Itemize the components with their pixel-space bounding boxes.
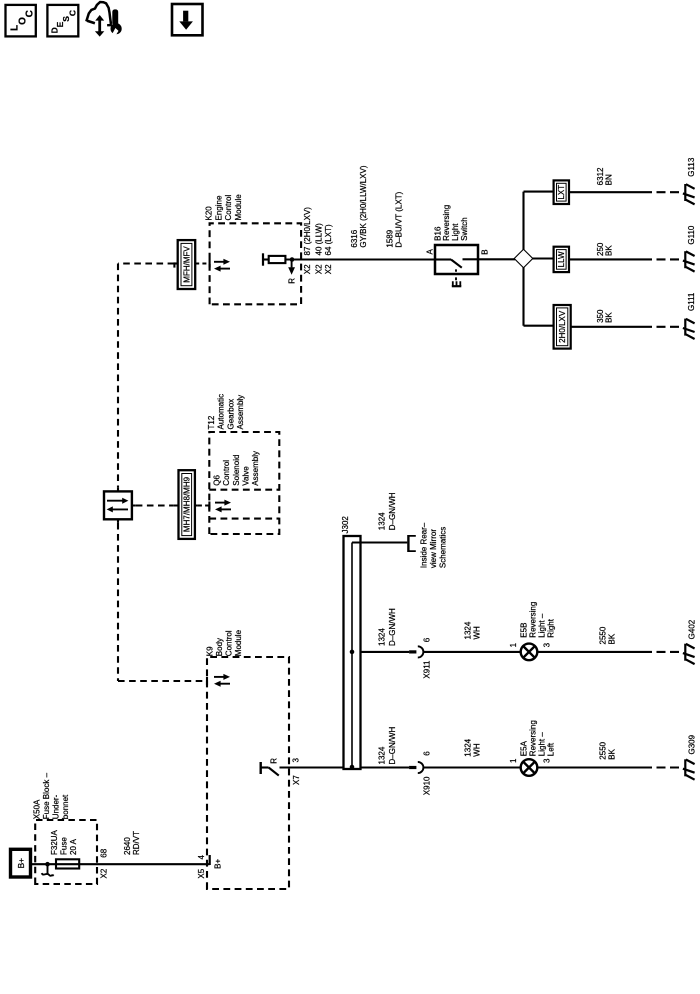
svg-text:87 (2H0/LXV): 87 (2H0/LXV) — [303, 207, 312, 256]
svg-text:D–GN/WH: D–GN/WH — [388, 727, 397, 765]
serial data arrows in K20 — [214, 259, 230, 272]
pin bracket at K9 B+ entry — [209, 855, 211, 865]
option box LXT — [554, 180, 569, 204]
wire E5A to ground — [537, 766, 652, 768]
svg-text:Schematics: Schematics — [439, 527, 448, 568]
svg-text:4: 4 — [197, 855, 206, 860]
mechanical comb symbol — [452, 285, 462, 287]
option box LLW — [554, 247, 569, 272]
ground G402 — [683, 644, 695, 664]
svg-text:X2: X2 — [303, 264, 312, 274]
label K20 Engine Control Module — [205, 194, 243, 221]
off-page bracket — [407, 535, 409, 552]
svg-text:Gearbox: Gearbox — [226, 399, 235, 430]
svg-text:Fuse: Fuse — [59, 837, 68, 855]
svg-text:X910: X910 — [423, 776, 432, 795]
svg-text:bonnet: bonnet — [61, 794, 70, 819]
svg-text:BK: BK — [607, 748, 616, 759]
wire K9 output to J302 — [280, 766, 344, 768]
ground G111 — [683, 319, 695, 339]
gearbox T12 dashed box — [209, 432, 279, 534]
wire LXT to ground — [569, 191, 652, 193]
svg-text:Engine: Engine — [214, 195, 223, 220]
mechanical link dashes — [455, 269, 457, 280]
svg-text:G110: G110 — [687, 225, 696, 245]
tick at MFH/MFV stub — [173, 262, 175, 267]
option box 2H0/LXV — [554, 305, 571, 349]
svg-text:X2: X2 — [324, 264, 333, 274]
svg-text:B: B — [481, 249, 490, 254]
output driver R in K9 — [260, 762, 262, 774]
label 1589 D-BU/VT — [386, 191, 404, 247]
svg-text:Q6: Q6 — [212, 474, 221, 485]
connector MFH/MFV box — [178, 240, 196, 289]
label T12 Automatic Gearbox Assembly — [207, 394, 245, 430]
label 250 BK — [596, 242, 614, 256]
svg-text:Module: Module — [234, 194, 243, 221]
connector MH7/MH8/MH9 box — [179, 470, 195, 539]
svg-text:Reversing: Reversing — [528, 602, 537, 638]
svg-text:Light –: Light – — [537, 613, 546, 638]
svg-text:3: 3 — [542, 642, 551, 647]
svg-text:1324: 1324 — [463, 738, 472, 756]
svg-text:Right: Right — [546, 618, 555, 637]
svg-text:MH7/MH8/MH9: MH7/MH8/MH9 — [183, 476, 192, 532]
svg-text:C: C — [68, 10, 78, 16]
svg-text:Reversing: Reversing — [442, 205, 451, 241]
wire K20 to B16 — [285, 258, 435, 260]
svg-text:Body: Body — [215, 638, 224, 656]
connector J302 bus bar — [344, 536, 361, 769]
svg-text:B+: B+ — [16, 858, 26, 869]
svg-text:1589: 1589 — [386, 229, 395, 247]
svg-text:T12: T12 — [207, 415, 216, 429]
svg-text:X50A: X50A — [32, 799, 41, 819]
svg-text:R: R — [287, 278, 296, 284]
svg-text:2H0/LXV: 2H0/LXV — [558, 310, 567, 343]
svg-text:Control: Control — [222, 460, 231, 486]
pins X2 87/40/64 — [303, 207, 333, 275]
svg-text:K20: K20 — [205, 206, 214, 221]
tick at T12 bus entry — [208, 502, 210, 510]
svg-text:Module: Module — [234, 629, 243, 656]
svg-text:Assembly: Assembly — [236, 395, 245, 430]
switch B16 Reversing Light Switch — [435, 245, 478, 274]
svg-text:1324: 1324 — [463, 621, 472, 639]
svg-text:WH: WH — [472, 743, 481, 757]
node R tap — [290, 257, 295, 262]
label 6312 BN — [596, 167, 614, 185]
svg-text:K9: K9 — [205, 646, 214, 656]
svg-text:D–GN/WH: D–GN/WH — [388, 608, 397, 646]
svg-text:3: 3 — [542, 758, 551, 763]
svg-text:BK: BK — [604, 312, 613, 323]
svg-text:BK: BK — [607, 633, 616, 644]
svg-text:X911: X911 — [423, 660, 432, 679]
splice diamond — [515, 250, 532, 267]
icon left-arrow box — [172, 4, 203, 35]
svg-text:B+: B+ — [214, 858, 223, 868]
branch rail wire — [522, 192, 524, 326]
svg-text:view Mirror: view Mirror — [429, 529, 438, 568]
valve assembly Q6 inner dashed walls — [209, 490, 279, 519]
label 6316 GY/BK — [350, 165, 368, 247]
module K9 Body Control Module dashed box — [207, 657, 289, 889]
ground G110 — [683, 251, 695, 271]
ground G309 — [683, 759, 695, 779]
label Q6 Control Solenoid Valve Assembly — [212, 451, 260, 486]
svg-text:G111: G111 — [687, 292, 696, 311]
ground G113 — [683, 184, 695, 204]
wire J302 to mirror schematics — [352, 541, 407, 543]
svg-text:Fuse Block –: Fuse Block – — [42, 772, 51, 819]
svg-text:BK: BK — [604, 245, 613, 256]
label 2550 BK — [598, 741, 616, 759]
svg-text:20 A: 20 A — [69, 838, 78, 855]
connector X910 — [409, 762, 423, 773]
fuse block X50A dashed box — [35, 820, 97, 884]
label Inside Rear-view Mirror Schematics — [420, 522, 448, 568]
wire LLW to ground — [569, 258, 652, 260]
svg-text:Control: Control — [224, 630, 233, 656]
icon vehicle-lift with wrench (drawn in portrait coords) — [86, 2, 121, 37]
tick at K20 bus entry — [209, 260, 211, 268]
wire B+ to K9 — [31, 863, 210, 865]
fuse F32UA — [56, 859, 79, 868]
svg-text:Assembly: Assembly — [251, 451, 260, 486]
arrow R inside K20 — [291, 260, 293, 267]
connector X911 — [409, 646, 423, 657]
node fuse tap — [45, 862, 50, 867]
lamp E5B Reversing Light Right — [521, 644, 538, 661]
svg-text:6: 6 — [422, 751, 431, 756]
label 1324 WH — [463, 738, 481, 756]
svg-text:X5: X5 — [197, 868, 206, 878]
svg-text:Under-: Under- — [51, 794, 60, 819]
svg-text:D–GN/WH: D–GN/WH — [388, 492, 397, 530]
resistor in K20 — [269, 256, 286, 263]
svg-text:G402: G402 — [687, 619, 696, 639]
lamp E5A Reversing Light Left — [521, 759, 538, 776]
label 1324 D-GN/WH — [377, 727, 397, 765]
svg-text:Inside Rear–: Inside Rear– — [420, 522, 429, 568]
svg-text:64 (LXT): 64 (LXT) — [324, 224, 333, 255]
wire to 2H0/LXV — [524, 325, 554, 327]
serial data arrows in K9 — [214, 674, 230, 687]
svg-text:BN: BN — [604, 174, 613, 185]
svg-text:Solenoid: Solenoid — [232, 455, 241, 486]
label F32UA Fuse 20 A — [50, 829, 78, 855]
svg-text:GY/BK (2H0/LLW/LXV): GY/BK (2H0/LLW/LXV) — [359, 165, 368, 247]
svg-text:Reversing: Reversing — [528, 720, 537, 756]
svg-text:X7: X7 — [292, 775, 301, 785]
wire X910 to E5A — [423, 766, 521, 768]
icon DESC box — [47, 5, 78, 37]
svg-text:A: A — [425, 249, 434, 255]
svg-text:E5B: E5B — [519, 623, 528, 638]
wire to LXT — [524, 191, 554, 193]
svg-text:1: 1 — [509, 758, 518, 763]
svg-text:LLW: LLW — [557, 251, 566, 267]
svg-text:1324: 1324 — [377, 512, 386, 530]
wire J302 to X911 — [361, 651, 410, 653]
svg-text:3: 3 — [292, 758, 301, 763]
svg-text:2550: 2550 — [598, 626, 607, 644]
svg-text:1324: 1324 — [377, 746, 386, 764]
svg-text:68: 68 — [100, 848, 109, 857]
battery B+ feed box — [11, 849, 31, 877]
wire to LLW — [532, 257, 554, 259]
svg-text:Control: Control — [224, 194, 233, 220]
svg-text:Light –: Light – — [537, 732, 546, 757]
svg-text:Automatic: Automatic — [217, 394, 226, 430]
svg-text:G113: G113 — [687, 157, 696, 177]
svg-text:D–BU/VT (LXT): D–BU/VT (LXT) — [394, 191, 403, 247]
label 1324 D-GN/WH mirror — [377, 492, 397, 530]
wire 2H0/LXV to ground — [571, 326, 652, 328]
fuse clip hook — [47, 864, 49, 874]
svg-text:J302: J302 — [341, 516, 350, 534]
label 2550 BK — [598, 626, 616, 644]
svg-text:Switch: Switch — [460, 217, 469, 241]
data link connector box on bus — [104, 491, 132, 519]
svg-text:6316: 6316 — [350, 229, 359, 247]
svg-text:MFH/MFV: MFH/MFV — [182, 246, 191, 283]
wire X911 to E5B — [423, 651, 521, 653]
svg-text:Valve: Valve — [242, 466, 251, 486]
wire E5B to ground — [537, 651, 652, 653]
switch contacts — [435, 258, 451, 260]
icon LOC letters — [10, 10, 36, 31]
label X50A Fuse Block - Underbonnet — [32, 772, 70, 819]
svg-text:2640: 2640 — [123, 837, 132, 855]
label 2640 RD/VT — [123, 831, 141, 855]
svg-text:2550: 2550 — [598, 741, 607, 759]
wire B16 to splice — [478, 258, 515, 260]
svg-text:LXT: LXT — [557, 185, 566, 200]
label 1324 WH — [463, 621, 481, 639]
serial data arrows in Q6 — [215, 500, 231, 513]
node E5B tap — [350, 650, 355, 655]
svg-text:F32UA: F32UA — [50, 829, 59, 855]
icon DESC letters — [49, 10, 77, 33]
svg-text:R: R — [270, 758, 279, 764]
wire J302 to X910 — [361, 766, 410, 768]
supply tick in K20 — [262, 253, 264, 265]
tick at K9 bus entry — [206, 677, 208, 685]
svg-text:Left: Left — [546, 742, 555, 756]
label 1324 D-GN/WH — [377, 608, 397, 646]
label 350 BK — [596, 309, 614, 323]
svg-text:G309: G309 — [687, 734, 696, 754]
svg-text:RD/VT: RD/VT — [132, 831, 141, 855]
svg-text:X2: X2 — [100, 868, 109, 878]
svg-text:6: 6 — [422, 637, 431, 642]
svg-text:1: 1 — [509, 642, 518, 647]
svg-text:40 (LLW): 40 (LLW) — [314, 223, 323, 256]
module K20 Engine Control Module dashed box — [210, 223, 302, 304]
svg-text:C: C — [25, 10, 36, 17]
node feed junction — [350, 765, 355, 770]
icon LOC box — [6, 5, 36, 37]
svg-text:Light: Light — [451, 223, 460, 241]
label K9 Body Control Module — [205, 629, 243, 656]
svg-text:1324: 1324 — [377, 628, 386, 646]
svg-text:WH: WH — [472, 626, 481, 640]
serial data bus dashed wire — [118, 264, 210, 682]
svg-text:X2: X2 — [314, 264, 323, 274]
svg-text:B16: B16 — [433, 226, 442, 241]
svg-text:E5A: E5A — [519, 740, 528, 756]
